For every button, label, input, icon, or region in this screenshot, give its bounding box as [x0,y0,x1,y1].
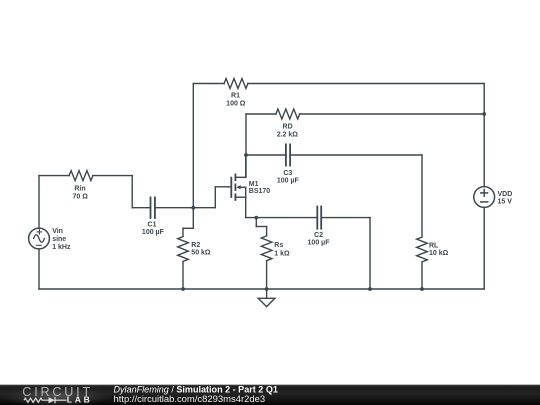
svg-text:RD: RD [283,124,293,131]
svg-text:Vin: Vin [52,228,63,235]
svg-text:1 kΩ: 1 kΩ [274,250,290,257]
svg-text:BS170: BS170 [249,188,271,195]
svg-text:VDD: VDD [498,191,513,198]
svg-text:C1: C1 [148,222,157,229]
svg-text:LAB: LAB [67,395,93,405]
svg-text:100 Ω: 100 Ω [226,101,246,108]
svg-text:http://circuitlab.com/c8293ms4: http://circuitlab.com/c8293ms4r2de3 [114,394,266,405]
svg-text:100 µF: 100 µF [277,178,300,185]
svg-text:Rs: Rs [274,242,283,249]
svg-text:C3: C3 [283,170,292,177]
svg-text:RL: RL [429,242,439,249]
svg-text:2.2 kΩ: 2.2 kΩ [277,131,299,138]
svg-text:10 kΩ: 10 kΩ [429,250,449,257]
svg-text:sine: sine [52,236,66,243]
svg-text:M1: M1 [249,181,259,188]
svg-text:R1: R1 [231,93,240,100]
svg-text:C2: C2 [314,232,323,239]
svg-text:100 µF: 100 µF [142,229,165,236]
svg-text:50 kΩ: 50 kΩ [191,250,211,257]
svg-text:100 µF: 100 µF [308,240,331,247]
svg-text:R2: R2 [191,242,200,249]
svg-text:70 Ω: 70 Ω [73,193,89,200]
svg-text:1 kHz: 1 kHz [52,244,71,251]
svg-text:Rin: Rin [74,185,85,192]
svg-text:15 V: 15 V [498,199,513,206]
